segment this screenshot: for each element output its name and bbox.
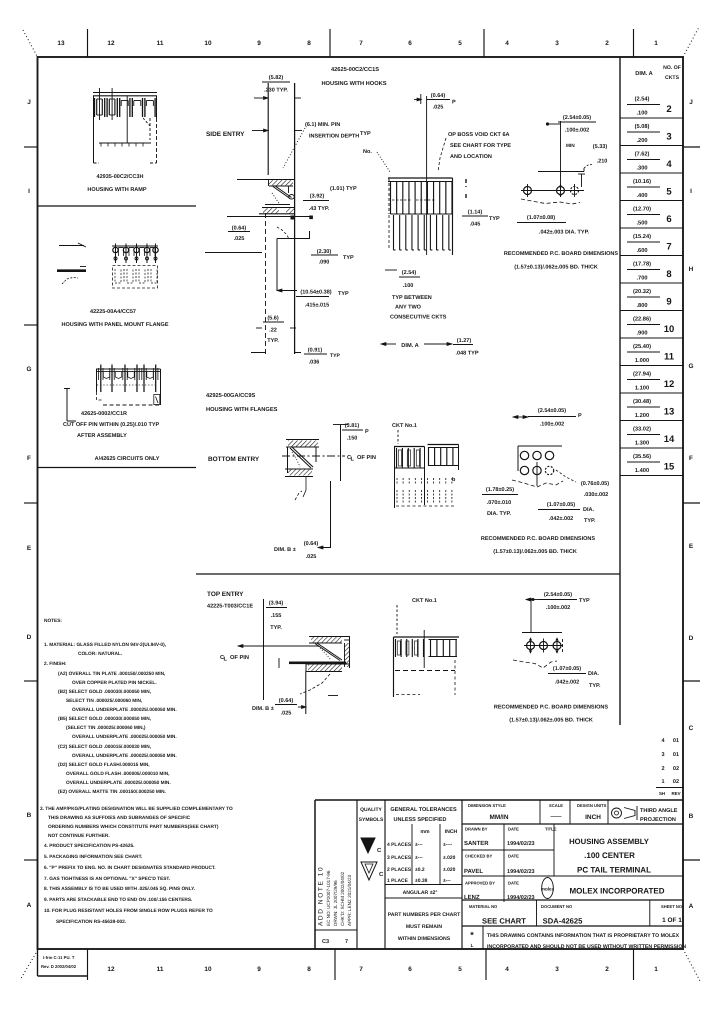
- svg-text:5. PACKAGING INFORMATION SEE C: 5. PACKAGING INFORMATION SEE CHART.: [44, 854, 142, 860]
- svg-text:(22.86): (22.86): [633, 316, 651, 323]
- svg-text:MOLEX INCORPORATED: MOLEX INCORPORATED: [570, 887, 665, 896]
- svg-text:10: 10: [204, 40, 212, 47]
- svg-text:E: E: [27, 545, 32, 552]
- svg-text:2: 2: [605, 40, 609, 47]
- svg-text:SDA-42625: SDA-42625: [543, 917, 583, 926]
- view: housing with panel mount flange: [57, 243, 158, 288]
- svg-text:.415±.015: .415±.015: [305, 303, 330, 309]
- svg-text:TYP BETWEEN: TYP BETWEEN: [392, 295, 432, 301]
- svg-text:.43 TYP.: .43 TYP.: [309, 206, 330, 212]
- svg-text:C: C: [379, 871, 384, 878]
- svg-text:6: 6: [408, 966, 412, 973]
- svg-text:42925-00GA/CC9S: 42925-00GA/CC9S: [206, 392, 256, 399]
- svg-text:AND LOCATION: AND LOCATION: [450, 154, 492, 160]
- svg-text:±---: ±---: [415, 855, 423, 861]
- svg-text:OVERALL UNDERPLATE .000025/.00: OVERALL UNDERPLATE .000025/.000050 MIN.: [72, 707, 177, 713]
- note: min pin insertion depth: [283, 122, 359, 168]
- svg-text:1. MATERIAL: GLASS FILLED NYLO: 1. MATERIAL: GLASS FILLED NYLON 94V-2(UL…: [44, 642, 166, 648]
- svg-text:±.020: ±.020: [443, 855, 456, 861]
- svg-text:11: 11: [157, 40, 164, 47]
- svg-text:9. PARTS ARE STACKABLE END TO: 9. PARTS ARE STACKABLE END TO END ON .10…: [44, 897, 192, 903]
- svg-text:.700: .700: [636, 276, 647, 282]
- svg-text:(1.78±0.25): (1.78±0.25): [486, 487, 514, 493]
- svg-text:(6.1) MIN. PIN: (6.1) MIN. PIN: [305, 122, 340, 128]
- svg-text:MUST REMAIN: MUST REMAIN: [406, 924, 443, 930]
- svg-text:ADD NOTE 10: ADD NOTE 10: [318, 866, 325, 926]
- svg-text:INCH: INCH: [585, 814, 601, 821]
- svg-text:8: 8: [307, 966, 311, 973]
- svg-text:2: 2: [661, 766, 664, 772]
- svg-text:10: 10: [664, 324, 675, 335]
- note: recommended pc board dimensions (bottom): [481, 536, 596, 555]
- dim A / no. of ckts table: [620, 57, 683, 725]
- left margin zone letters: [24, 99, 38, 909]
- label: 42625 cut off pin: [63, 411, 160, 462]
- svg-text:12: 12: [107, 966, 115, 973]
- radius curve: [277, 227, 289, 239]
- svg-text:.025: .025: [281, 711, 292, 717]
- svg-text:CUT OFF PIN WITHIN (0.25)/.010: CUT OFF PIN WITHIN (0.25)/.010 TYP: [63, 422, 160, 428]
- svg-text:A: A: [27, 902, 32, 909]
- svg-text:CHECKED BY: CHECKED BY: [465, 854, 493, 859]
- svg-text:RECOMMENDED P.C. BOARD DIMENSI: RECOMMENDED P.C. BOARD DIMENSIONS: [481, 536, 596, 542]
- svg-text:BOTTOM ENTRY: BOTTOM ENTRY: [208, 456, 260, 463]
- svg-text:No.: No.: [363, 149, 372, 155]
- svg-text:.030±.002: .030±.002: [584, 492, 609, 498]
- svg-text:4. PRODUCT SPECIFICATION PS-42: 4. PRODUCT SPECIFICATION PS-42625.: [44, 843, 134, 849]
- proprietary note box: [470, 926, 686, 950]
- svg-text:NO. OF: NO. OF: [663, 65, 681, 71]
- svg-text:HOUSING WITH PANEL MOUNT FLANG: HOUSING WITH PANEL MOUNT FLANGE: [61, 322, 168, 328]
- svg-text:1.200: 1.200: [635, 413, 649, 419]
- svg-text:Rev. D 2002/04/02: Rev. D 2002/04/02: [41, 964, 77, 969]
- separator line 2: [38, 467, 197, 469]
- bottom-left footer box: [38, 949, 88, 976]
- svg-text:WITHIN DIMENSIONS: WITHIN DIMENSIONS: [398, 936, 451, 942]
- svg-text:(7.62): (7.62): [635, 151, 650, 158]
- dimension (1.07±0.08)/.042 dia: [517, 215, 590, 236]
- svg-text:F: F: [27, 455, 31, 462]
- svg-text:1994/02/23: 1994/02/23: [507, 841, 535, 847]
- svg-text:(10.16): (10.16): [633, 178, 651, 185]
- svg-text:13: 13: [57, 40, 65, 47]
- bottom zone numbers: [88, 949, 659, 980]
- svg-text:B: B: [689, 813, 694, 820]
- svg-text:3: 3: [555, 966, 559, 973]
- svg-text:INCH: INCH: [445, 829, 458, 835]
- note: op boss: [438, 132, 511, 172]
- svg-text:(1.07±0.05): (1.07±0.05): [553, 666, 581, 672]
- dim line .150: [277, 231, 310, 291]
- svg-text:7. GAS TIGHTNESS IS AN OPTIONA: 7. GAS TIGHTNESS IS AN OPTIONAL "X" SPEC…: [44, 876, 170, 882]
- svg-text:02: 02: [673, 766, 679, 772]
- label: 42935 housing with ramp: [87, 174, 146, 193]
- svg-text:(5.6): (5.6): [267, 316, 279, 322]
- svg-text:DOCUMENT NO: DOCUMENT NO: [541, 904, 573, 909]
- svg-text:D: D: [27, 634, 32, 641]
- svg-text:1: 1: [661, 779, 664, 785]
- svg-text:3: 3: [555, 40, 559, 47]
- svg-text:.042±.003 DIA. TYP.: .042±.003 DIA. TYP.: [539, 230, 590, 236]
- svg-text:QUALITY: QUALITY: [360, 807, 382, 813]
- svg-text:(1.57±0.13)/.062±.005 BD. THIC: (1.57±0.13)/.062±.005 BD. THICK: [514, 265, 598, 271]
- svg-text:SEE CHART FOR TYPE: SEE CHART FOR TYPE: [450, 143, 511, 149]
- svg-text:7: 7: [359, 40, 363, 47]
- svg-text:OVERALL UNDERPLATE .000025/.00: OVERALL UNDERPLATE .000025/.000050 MIN.: [72, 734, 177, 740]
- svg-text:.22: .22: [269, 328, 277, 334]
- svg-text:CKT No.1: CKT No.1: [412, 598, 437, 604]
- svg-text:5: 5: [458, 966, 462, 973]
- svg-text:L: L: [351, 457, 355, 463]
- svg-text:APPROVED BY: APPROVED BY: [465, 881, 495, 886]
- svg-text:HOUSING ASSEMBLY: HOUSING ASSEMBLY: [569, 837, 649, 846]
- svg-text:REV: REV: [671, 791, 680, 796]
- svg-text:4 PLACES: 4 PLACES: [387, 842, 412, 848]
- svg-text:±0.38: ±0.38: [415, 878, 428, 884]
- svg-text:42625-00C2/CC1S: 42625-00C2/CC1S: [331, 66, 379, 73]
- svg-text:(E2) OVERALL MATTE TIN .000150: (E2) OVERALL MATTE TIN .000150/.000250 M…: [58, 789, 166, 795]
- dimension (2.30)/.090 typ: [311, 249, 354, 266]
- svg-text:3: 3: [661, 752, 664, 758]
- label: 42925 housing with flanges: [206, 392, 278, 413]
- svg-text:GENERAL TOLERANCES: GENERAL TOLERANCES: [390, 807, 457, 813]
- svg-text:02: 02: [673, 779, 679, 785]
- svg-text:ORDERING NUMBERS WHICH CONSTIT: ORDERING NUMBERS WHICH CONSTITUTE PART N…: [48, 824, 219, 830]
- svg-text:PC TAIL TERMINAL: PC TAIL TERMINAL: [577, 866, 651, 875]
- svg-text:P: P: [578, 413, 582, 419]
- svg-text:OP BOSS VOID CKT 6A: OP BOSS VOID CKT 6A: [448, 132, 510, 138]
- svg-text:1: 1: [654, 966, 658, 973]
- svg-text:DATE: DATE: [508, 827, 519, 832]
- svg-text:INCORPORATED AND SHOULD NOT BE: INCORPORATED AND SHOULD NOT BE USED WITH…: [487, 944, 686, 950]
- svg-text:L: L: [224, 657, 228, 663]
- dimension (10.54)/.415: [277, 289, 349, 309]
- dimension dim B (top entry): [252, 672, 306, 717]
- svg-text:SPECIFICATION RS-45638-002.: SPECIFICATION RS-45638-002.: [56, 919, 126, 925]
- svg-text:CONSECUTIVE CKTS: CONSECUTIVE CKTS: [390, 315, 447, 321]
- svg-text:.025: .025: [433, 105, 444, 111]
- svg-text:HOUSING WITH RAMP: HOUSING WITH RAMP: [87, 187, 146, 193]
- svg-text:NOT CONTINUE FURTHER.: NOT CONTINUE FURTHER.: [48, 833, 110, 839]
- drawn/checked/approved rows: [462, 824, 683, 902]
- note: typ between consecutive ckts: [385, 270, 447, 321]
- svg-text:OVERALL UNDERPLATE .000025/.00: OVERALL UNDERPLATE .000025/.000050 MIN.: [66, 780, 171, 786]
- separator line: [38, 205, 197, 207]
- svg-text:1 OF 1: 1 OF 1: [662, 917, 682, 924]
- svg-text:8: 8: [666, 269, 671, 280]
- svg-text:OVERALL GOLD FLASH .000005/.00: OVERALL GOLD FLASH .000005/.000010 MIN,: [66, 771, 169, 777]
- label ckt no 1 (bottom): [392, 423, 417, 444]
- svg-text:±----: ±----: [443, 842, 453, 848]
- top entry section: [300, 637, 350, 696]
- svg-text:.100: .100: [403, 283, 414, 289]
- svg-text:TYP: TYP: [579, 598, 590, 604]
- label: 42625 housing with hooks: [321, 66, 386, 87]
- svg-text:RECOMMENDED P.C. BOARD DIMENSI: RECOMMENDED P.C. BOARD DIMENSIONS: [504, 251, 619, 257]
- svg-text:7: 7: [359, 966, 363, 973]
- svg-text:(25.40): (25.40): [633, 343, 651, 350]
- svg-text:(5.08): (5.08): [635, 123, 650, 130]
- svg-text:.100 CENTER: .100 CENTER: [584, 851, 635, 860]
- svg-text:APPR: LENZ 2021/04/23: APPR: LENZ 2021/04/23: [347, 874, 352, 926]
- svg-text:9: 9: [257, 40, 261, 47]
- svg-text:6: 6: [666, 214, 671, 225]
- svg-text:11: 11: [157, 966, 164, 973]
- svg-text:(30.48): (30.48): [633, 398, 651, 405]
- svg-text:(SELECT TIN .000025/.000060 MI: (SELECT TIN .000025/.000060 MIN,): [66, 725, 146, 731]
- svg-text:INSERTION DEPTH: INSERTION DEPTH: [309, 134, 359, 140]
- svg-text:TITLE: TITLE: [545, 827, 557, 832]
- label: 42225 housing with panel mount flange: [61, 309, 168, 328]
- svg-text:.200: .200: [636, 138, 647, 144]
- svg-text:G: G: [688, 363, 693, 370]
- svg-text:OVER COPPER PLATED PIN NICKEL.: OVER COPPER PLATED PIN NICKEL.: [72, 680, 157, 686]
- svg-text:G: G: [26, 366, 31, 373]
- svg-text:PART NUMBERS PER CHART: PART NUMBERS PER CHART: [388, 912, 461, 918]
- svg-text:8: 8: [307, 40, 311, 47]
- note: recommended pc board dimensions (top): [494, 705, 609, 724]
- svg-text:1.100: 1.100: [635, 386, 649, 392]
- svg-text:.100±.002: .100±.002: [540, 422, 565, 428]
- svg-text:1.000: 1.000: [635, 358, 649, 364]
- svg-text:(20.32): (20.32): [633, 288, 651, 295]
- dimension (0.76)/.030: [556, 470, 609, 498]
- svg-text:C: C: [689, 725, 694, 732]
- svg-text:±---: ±---: [443, 878, 451, 884]
- svg-text:(B5) SELECT GOLD .000030/.0000: (B5) SELECT GOLD .000030/.000050 MIN,: [58, 716, 151, 722]
- svg-text:(1.57±0.13)/.062±.005 BD. THIC: (1.57±0.13)/.062±.005 BD. THICK: [509, 718, 593, 724]
- svg-text:(3.94): (3.94): [269, 601, 284, 607]
- svg-text:2 PLACES: 2 PLACES: [387, 867, 412, 873]
- svg-text:TYP.: TYP.: [267, 338, 279, 344]
- svg-text:OF PIN: OF PIN: [230, 655, 249, 661]
- svg-text:DRWN: JL 2007/29/96: DRWN: JL 2007/29/96: [333, 880, 338, 926]
- svg-text:(2.54±0.05): (2.54±0.05): [544, 592, 572, 598]
- center line of pin: [282, 455, 376, 463]
- svg-text:mm: mm: [420, 829, 430, 835]
- svg-text:molex: molex: [541, 887, 555, 892]
- svg-text:(0.64): (0.64): [232, 226, 247, 232]
- svg-text:(1.07±0.05): (1.07±0.05): [547, 502, 575, 508]
- section center line: [265, 213, 267, 355]
- svg-text:——: ——: [550, 814, 562, 820]
- svg-text:(35.56): (35.56): [633, 453, 651, 460]
- svg-text:8. THIS ASSEMBLY IS TO BE USED: 8. THIS ASSEMBLY IS TO BE USED WITH .025…: [44, 886, 195, 892]
- svg-text:(3.92): (3.92): [310, 194, 325, 200]
- right margin zone letters: [683, 99, 700, 910]
- side entry section housing: [227, 83, 313, 354]
- svg-text:(1.01) TYP: (1.01) TYP: [330, 186, 357, 192]
- svg-text:(2.54±0.05): (2.54±0.05): [538, 408, 566, 414]
- bottom entry pcb pattern: [512, 408, 582, 487]
- svg-text:±---: ±---: [415, 842, 423, 848]
- svg-text:.036: .036: [309, 360, 320, 366]
- dimension (5.6)/.22 typ: [256, 316, 296, 345]
- svg-text:(5.33): (5.33): [593, 144, 608, 150]
- svg-text:14: 14: [664, 434, 675, 445]
- svg-text:CKT No.1: CKT No.1: [392, 423, 417, 429]
- svg-text:(0.76±0.05): (0.76±0.05): [581, 481, 609, 487]
- svg-text:.600: .600: [636, 248, 647, 254]
- svg-text:SEE CHART: SEE CHART: [482, 917, 526, 926]
- svg-text:1 PLACE: 1 PLACE: [387, 878, 409, 884]
- svg-text:(27.94): (27.94): [633, 371, 651, 378]
- view: 42625 housing top view: [64, 365, 161, 422]
- svg-text:01: 01: [673, 738, 679, 744]
- svg-text:THIRD ANGLE: THIRD ANGLE: [640, 808, 678, 814]
- svg-text:TYP: TYP: [330, 353, 340, 359]
- svg-text:5: 5: [458, 40, 462, 47]
- svg-text:TYP: TYP: [343, 255, 354, 261]
- svg-text:42225-T003/CC1E: 42225-T003/CC1E: [207, 604, 253, 610]
- svg-text:TYP: TYP: [489, 216, 500, 222]
- svg-text:TYP.: TYP.: [270, 625, 282, 631]
- svg-text:2: 2: [666, 104, 671, 115]
- svg-text:1.300: 1.300: [635, 441, 649, 447]
- svg-text:I: I: [28, 188, 30, 195]
- dimension (1.07)/.042 dia (bottom entry): [538, 502, 596, 524]
- svg-text:.070±.010: .070±.010: [487, 500, 512, 506]
- note: recommended pc board dimensions (side): [504, 251, 619, 271]
- svg-text:.155: .155: [271, 613, 282, 619]
- svg-text:42225-00A4/CC57: 42225-00A4/CC57: [90, 309, 136, 315]
- title block frame: [315, 800, 683, 949]
- svg-text:1.400: 1.400: [635, 468, 649, 474]
- svg-text:(1.27): (1.27): [457, 338, 472, 344]
- svg-text:SIDE ENTRY: SIDE ENTRY: [206, 131, 245, 138]
- dimension (5.82)/.230 typ: [254, 75, 301, 100]
- quality symbols cell: [359, 807, 384, 880]
- svg-text:7: 7: [666, 242, 671, 253]
- svg-text:PROJECTION: PROJECTION: [640, 817, 676, 823]
- top zone numbers: [57, 29, 658, 57]
- svg-text:HOUSING WITH FLANGES: HOUSING WITH FLANGES: [206, 407, 278, 413]
- svg-text:2: 2: [605, 966, 609, 973]
- svg-text:OVERALL UNDERPLATE .000025/.00: OVERALL UNDERPLATE .000025/.000050 MIN.: [72, 753, 177, 759]
- center line of pin (top entry): [220, 645, 346, 669]
- svg-text:DATE: DATE: [508, 881, 519, 886]
- svg-text:DATE: DATE: [508, 854, 519, 859]
- dimension (3.92)/.43 typ: [303, 194, 330, 213]
- svg-text:.025: .025: [234, 236, 245, 242]
- svg-text:7: 7: [345, 939, 348, 945]
- svg-text:SYMBOLS: SYMBOLS: [359, 817, 384, 823]
- general tolerances cell: [385, 807, 462, 942]
- svg-text:A: A: [689, 903, 694, 910]
- svg-text:A/42625 CIRCUITS ONLY: A/42625 CIRCUITS ONLY: [95, 456, 160, 462]
- svg-text:(33.02): (33.02): [633, 426, 651, 433]
- svg-text:SHEET NO: SHEET NO: [661, 904, 683, 909]
- dimension (0.91)/.036 bottom: [251, 348, 340, 366]
- svg-text:L: L: [471, 943, 474, 948]
- dimension (1.14)/.045: [462, 210, 500, 228]
- svg-text:P: P: [365, 429, 369, 435]
- border frame: [38, 57, 684, 949]
- svg-text:9: 9: [666, 297, 671, 308]
- svg-text:(0.64): (0.64): [304, 541, 319, 547]
- svg-text:(0.64): (0.64): [279, 698, 294, 704]
- bottom entry front view: [394, 445, 459, 509]
- svg-text:(10.54±0.38): (10.54±0.38): [300, 290, 331, 296]
- dimension (1.27)/.048: [453, 338, 479, 357]
- molex logo and company row: [462, 878, 683, 901]
- svg-text:.210: .210: [597, 159, 608, 165]
- svg-text:±0.2: ±0.2: [415, 867, 425, 873]
- svg-text:MATERIAL NO: MATERIAL NO: [469, 904, 498, 909]
- svg-text:.042±.002: .042±.002: [555, 680, 580, 686]
- svg-text:(D2) SELECT GOLD FLASH/.000015: (D2) SELECT GOLD FLASH/.000015 MIN,: [58, 762, 150, 768]
- svg-text:CHK'D: SCHM 2002/04/02: CHK'D: SCHM 2002/04/02: [340, 871, 345, 926]
- svg-text:*: *: [470, 930, 474, 940]
- svg-text:P: P: [452, 100, 456, 106]
- svg-text:15: 15: [664, 462, 675, 473]
- svg-text:TYP.: TYP.: [589, 683, 601, 689]
- svg-text:C: C: [377, 847, 382, 854]
- svg-text:6. "P" PREFIX TO ENG. NO. IN C: 6. "P" PREFIX TO ENG. NO. IN CHART DESIG…: [44, 865, 216, 871]
- svg-text:SH: SH: [659, 791, 665, 796]
- svg-text:(3.81): (3.81): [345, 423, 360, 429]
- dimension (3.94)/.155: [264, 599, 288, 700]
- bottom entry section: [285, 440, 319, 501]
- svg-text:TOP ENTRY: TOP ENTRY: [207, 591, 244, 598]
- dimension (1.78)/.070 dia: [482, 487, 518, 517]
- svg-text:3: 3: [666, 132, 671, 143]
- svg-text:DIM. A: DIM. A: [401, 343, 418, 349]
- sheet revision table: [656, 738, 684, 796]
- svg-text:PAVEL: PAVEL: [464, 868, 483, 875]
- svg-text:J: J: [27, 99, 31, 106]
- svg-text:.090: .090: [319, 260, 330, 266]
- dimension (1.07)/.042 (top entry): [548, 666, 601, 689]
- svg-text:AFTER ASSEMBLY: AFTER ASSEMBLY: [77, 433, 127, 439]
- svg-text:J: J: [689, 99, 693, 106]
- svg-text:(1.57±0.13)/.062±.005 BD. THIC: (1.57±0.13)/.062±.005 BD. THICK: [493, 549, 577, 555]
- dimension (0.64)/.025 left: [205, 226, 262, 253]
- svg-text:B: B: [27, 812, 32, 819]
- document number row: [462, 900, 683, 926]
- svg-text:DIA. TYP.: DIA. TYP.: [487, 511, 512, 517]
- svg-text:MIN: MIN: [566, 143, 575, 149]
- svg-text:ANY TWO: ANY TWO: [395, 305, 422, 311]
- board break dashes: [465, 179, 467, 201]
- svg-text:E: E: [689, 543, 694, 550]
- svg-text:42935-00C2/CC3H: 42935-00C2/CC3H: [97, 174, 144, 180]
- svg-text:MM/IN: MM/IN: [490, 814, 509, 821]
- svg-text:42625-0002/CC1R: 42625-0002/CC1R: [81, 411, 127, 417]
- svg-text:DIM. A: DIM. A: [635, 71, 652, 77]
- svg-text:(A2) OVERALL TIN PLATE .000150: (A2) OVERALL TIN PLATE .000150/.000250 M…: [58, 671, 165, 677]
- svg-text:.500: .500: [636, 221, 647, 227]
- top entry front view: [394, 598, 460, 697]
- svg-text:D: D: [689, 635, 694, 642]
- svg-text:3. THE AMP/PKG/PLATING DESIGNA: 3. THE AMP/PKG/PLATING DESIGNATION WILL …: [40, 806, 233, 812]
- svg-text:DESIGN UNITS: DESIGN UNITS: [577, 803, 607, 808]
- svg-text:F: F: [689, 455, 693, 462]
- title text: [569, 837, 651, 875]
- svg-text:RECOMMENDED P.C. BOARD DIMENSI: RECOMMENDED P.C. BOARD DIMENSIONS: [494, 705, 609, 711]
- svg-text:4: 4: [666, 159, 672, 170]
- svg-text:.100: .100: [636, 111, 647, 117]
- svg-text:(0.64): (0.64): [431, 93, 446, 99]
- svg-text:(2.30): (2.30): [317, 249, 332, 255]
- svg-text:(15.24): (15.24): [633, 233, 651, 240]
- svg-text:SANTER: SANTER: [464, 840, 489, 847]
- svg-text:.150: .150: [347, 436, 358, 442]
- svg-text:.900: .900: [636, 331, 647, 337]
- top entry pcb pattern: [513, 592, 590, 668]
- svg-text:(C2) SELECT GOLD .000015/.0000: (C2) SELECT GOLD .000015/.000030 MIN,: [58, 744, 151, 750]
- dimension (3.81)/.150 P: [333, 423, 369, 481]
